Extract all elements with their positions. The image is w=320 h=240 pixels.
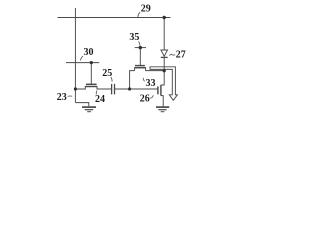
wire: riser from storage node up to transistor Q33 bbox=[130, 71, 135, 89]
svg-text:24: 24 bbox=[95, 94, 105, 105]
terminal 35 T-bar bbox=[135, 47, 146, 49]
hollow output arrow (outline, pointing down) bbox=[150, 67, 177, 101]
transistor Q26 drain path from node with step bbox=[161, 71, 164, 85]
ground symbol (left) bar 2 bbox=[85, 109, 94, 111]
wire: supply rail 29 (horizontal top line) bbox=[58, 17, 171, 19]
leader tick for label 35 bbox=[138, 41, 140, 45]
svg-text:27: 27 bbox=[176, 50, 186, 61]
junction dot gate line 30 / Q24 gate bbox=[90, 61, 93, 64]
diode D27 cathode bar bbox=[161, 56, 168, 58]
svg-text:23: 23 bbox=[57, 92, 67, 103]
svg-text:33: 33 bbox=[146, 78, 156, 89]
diode D27 cathode lead down to node bbox=[163, 57, 165, 71]
junction dot storage node / riser bbox=[128, 87, 131, 90]
capacitor C25 left plate bbox=[111, 84, 113, 95]
svg-text:30: 30 bbox=[84, 47, 94, 58]
transistor Q24 gate lead bbox=[90, 63, 92, 84]
ground symbol (right) bar 1 bbox=[156, 106, 169, 108]
transistor Q24 source-drain path with raised channel bbox=[75, 87, 111, 90]
junction dot diode node / Q33 drain bbox=[163, 69, 166, 72]
junction dot on rail 29 at diode D27 bbox=[163, 16, 166, 19]
ground symbol (right) bar 3 bbox=[161, 111, 165, 113]
leader tick for label 25 bbox=[111, 77, 112, 82]
junction dot line 23 / bottom wire bbox=[74, 87, 77, 90]
diode D27 triangle bbox=[161, 50, 168, 56]
junction dot terminal 35 bbox=[139, 46, 142, 49]
leader tick for label 24 bbox=[95, 91, 98, 95]
transistor Q24 channel plateau (thick) bbox=[85, 86, 97, 88]
transistor Q33 channel plateau (thick) bbox=[135, 67, 146, 69]
leader dash for label 23 bbox=[68, 95, 73, 97]
wire: storage node from capacitor to transistor Q26 gate bbox=[115, 88, 158, 90]
capacitor C25 right plate bbox=[114, 84, 116, 95]
svg-text:25: 25 bbox=[102, 68, 112, 79]
diode D27 anode lead from rail bbox=[163, 18, 165, 51]
leader tick for label 29 bbox=[138, 12, 140, 17]
wire: vertical line 23 (input column line) bbox=[74, 8, 76, 103]
svg-text:26: 26 bbox=[140, 94, 150, 105]
wire: gate line 30 (horizontal) bbox=[66, 62, 99, 64]
wire: ground jog from line 23 bbox=[75, 103, 88, 107]
ground symbol (left) bar 3 bbox=[87, 111, 91, 113]
transistor Q33 source-drain path with raised channel bbox=[135, 68, 165, 71]
leader tilde for label 27 bbox=[169, 54, 175, 55]
leader tick for label 33 bbox=[143, 78, 145, 82]
transistor Q24 gate bar bbox=[86, 83, 97, 85]
transistor Q33 gate bar bbox=[135, 65, 145, 67]
leader tick for label 26 bbox=[150, 95, 153, 98]
ground symbol (left) bar 1 bbox=[82, 106, 96, 108]
transistor Q33 gate lead bbox=[139, 48, 141, 66]
svg-text:35: 35 bbox=[129, 32, 139, 43]
svg-text:29: 29 bbox=[141, 3, 151, 14]
transistor Q26 channel plateau (thick, vertical) bbox=[160, 85, 162, 96]
leader tick for label 30 bbox=[80, 56, 83, 60]
ground symbol (right) bar 2 bbox=[158, 109, 166, 111]
transistor Q26 source path down to ground bbox=[161, 96, 163, 107]
transistor Q26 gate bar (vertical) bbox=[157, 86, 159, 94]
